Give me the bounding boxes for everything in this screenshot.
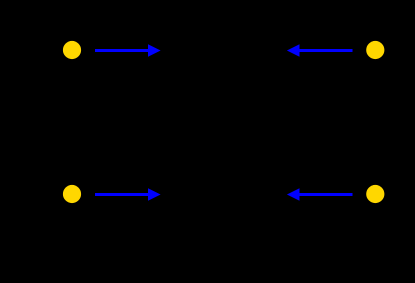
node dot top-left	[63, 41, 81, 59]
node dot bottom-right	[366, 185, 384, 203]
arrow top-right pointing left	[287, 44, 353, 57]
arrow bottom-left pointing right	[95, 188, 161, 201]
node dot bottom-left	[63, 185, 81, 203]
arrow bottom-right pointing left	[287, 188, 353, 201]
arrow top-left pointing right	[95, 44, 161, 57]
node dot top-right	[366, 41, 384, 59]
